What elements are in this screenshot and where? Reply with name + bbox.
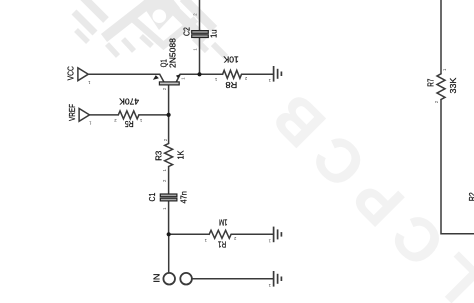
ground G1 [274, 66, 282, 82]
wire node to IN pin [168, 234, 170, 272]
wire VREF to R5 [90, 114, 119, 116]
svg-text:R1: R1 [218, 240, 227, 250]
svg-text:VCC: VCC [66, 66, 76, 80]
svg-text:IN: IN [151, 274, 161, 283]
svg-text:470K: 470K [119, 96, 139, 106]
junction node at R1/IN [167, 232, 171, 236]
wire R3 to C1 [168, 167, 170, 194]
svg-text:10K: 10K [223, 54, 239, 64]
watermark logo head [141, 0, 180, 30]
junction node at C2/R8 [197, 72, 201, 76]
wire node to R3 [168, 115, 170, 144]
connector IN pin 1 circle [163, 273, 175, 285]
wire C1 to node [168, 201, 170, 235]
svg-text:R2: R2 [467, 192, 474, 201]
ground G3 [274, 271, 282, 287]
transistor Q1 emitter diagonal [160, 74, 164, 81]
transistor Q1 collector arrow [176, 74, 180, 78]
wire R5 to node [139, 114, 169, 116]
resistor R1 [209, 230, 231, 238]
transistor Q1 emitter arrow [153, 75, 159, 80]
svg-text:1K: 1K [176, 150, 186, 159]
svg-text:47n: 47n [179, 191, 189, 204]
wire Q1 base down [168, 85, 170, 115]
capacitor C2 top wire [199, 0, 201, 30]
svg-text:C2: C2 [182, 27, 192, 36]
resistor R8 [223, 70, 242, 78]
power symbol VREF [79, 109, 89, 122]
wire R7 down and corner right [441, 100, 474, 234]
svg-text:R5: R5 [124, 119, 133, 129]
power symbol VCC [78, 68, 88, 81]
wire Q1 collector to node [180, 73, 223, 75]
capacitor C1 plates [160, 194, 177, 201]
svg-text:1M: 1M [219, 218, 228, 228]
wire R1 to ground [231, 233, 273, 235]
capacitor C2 bottom wire [199, 38, 201, 75]
svg-text:R8: R8 [225, 80, 237, 90]
wire VCC to Q1 emitter [88, 73, 159, 75]
ground G2 [274, 227, 282, 243]
svg-text:2N5088: 2N5088 [167, 38, 177, 68]
resistor R5 [118, 111, 139, 119]
capacitor C2 plates [192, 31, 209, 38]
wire node to R1 [169, 233, 210, 235]
resistor R3 [165, 144, 173, 167]
wire top to R7 [440, 0, 442, 74]
resistor R7 [437, 74, 445, 100]
wire IN pin 2 to ground [192, 278, 273, 280]
svg-text:1u: 1u [208, 29, 218, 38]
svg-text:R3: R3 [153, 151, 163, 161]
svg-text:C1: C1 [147, 192, 157, 201]
transistor Q1 collector diagonal [176, 75, 180, 82]
connector IN pin 2 circle [180, 273, 192, 285]
transistor Q1 base bar [159, 82, 179, 85]
svg-text:VREF: VREF [67, 104, 77, 121]
svg-text:R7: R7 [426, 78, 436, 86]
junction node at R5/R3 [167, 113, 171, 117]
svg-text:33K: 33K [448, 77, 458, 93]
watermark logo icon [74, 0, 226, 57]
wire R8 to ground [242, 73, 274, 75]
